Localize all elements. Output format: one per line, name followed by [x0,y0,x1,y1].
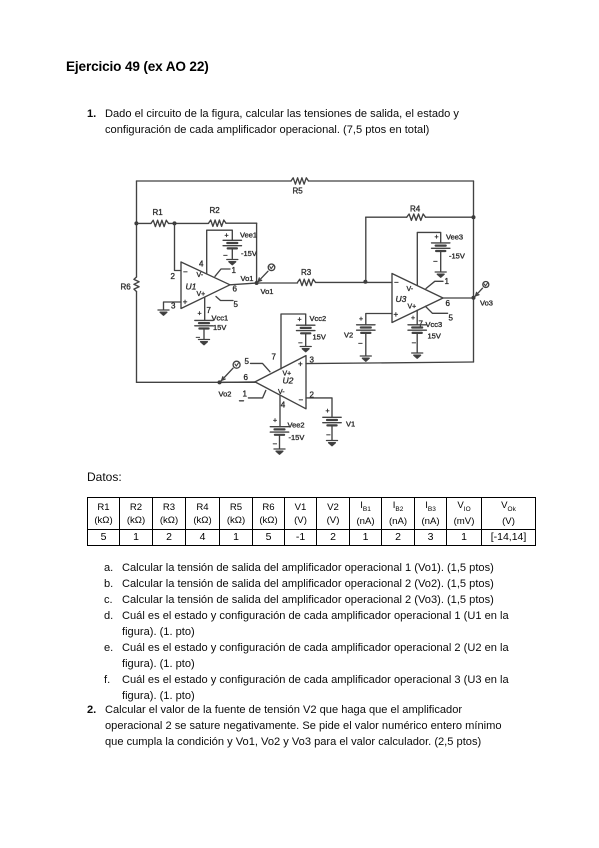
op-amp U1 [181,262,230,309]
svg-text:+: + [411,315,415,322]
svg-text:−: − [412,339,417,348]
svg-text:V+: V+ [197,291,206,298]
svg-text:6: 6 [244,373,249,382]
ground V1 [327,441,338,446]
svg-text:Vo3: Vo3 [480,298,493,307]
svg-text:-15V: -15V [241,249,257,258]
ground Vcc1 [199,340,210,345]
wire U2 pin5 [245,357,271,372]
battery Vee1 [223,231,257,261]
wire R1 row [137,222,257,224]
svg-text:4: 4 [199,260,204,269]
svg-text:R2: R2 [210,206,221,215]
svg-text:2: 2 [310,391,315,400]
svg-text:−: − [223,251,228,260]
battery Vee2 [270,418,304,449]
svg-text:+: + [273,418,277,425]
svg-text:1: 1 [445,277,450,286]
wire U1 pin3 to ground [164,302,182,311]
title [66,59,209,74]
svg-text:3: 3 [310,356,315,365]
svg-text:Vee3: Vee3 [446,233,463,242]
svg-text:+: + [394,310,399,319]
svg-text:R4: R4 [410,205,421,214]
battery Vcc2 [297,314,327,348]
battery V2 [344,316,375,356]
svg-text:6: 6 [233,285,238,294]
svg-text:2: 2 [171,272,176,281]
wire U1 pin7 to Vcc1 [205,297,212,320]
svg-text:−: − [394,278,399,287]
resistor R2 [209,206,227,226]
svg-text:+: + [435,234,439,241]
wire right rail [473,181,475,362]
ground Vee2 [274,449,285,454]
wire U3 output [443,298,474,308]
svg-text:Vee2: Vee2 [288,421,305,430]
wire U1 pin5 [216,297,239,309]
wire U2 pin3 label [310,356,315,365]
node R3/R4 junction [363,280,367,284]
op-amp U2 [255,356,306,409]
wire U2 pin1 [240,389,266,401]
node Vo1 [241,274,274,296]
svg-text:V2: V2 [344,331,353,340]
ground Vcc3 [412,353,423,358]
item 2 [87,702,96,718]
svg-text:V-: V- [407,286,414,293]
battery V1 [323,408,355,440]
svg-text:−: − [326,431,331,440]
item 1 [87,106,96,122]
svg-text:U3: U3 [396,294,407,304]
wire U2 pin4 to Vee2 [280,396,286,427]
op-amp U3 [392,274,443,323]
svg-text:−: − [183,268,188,277]
ground V2 [360,356,371,361]
resistor R4 [407,205,426,221]
svg-text:+: + [298,360,303,369]
svg-text:V1: V1 [346,420,355,429]
Datos: [87,469,122,485]
svg-text:−: − [273,440,278,449]
svg-text:15V: 15V [313,333,326,342]
svg-text:R3: R3 [301,268,312,277]
wire R4 left down to R3 node [365,217,367,282]
battery Vcc1 [195,311,228,343]
node R1/R2 junction [173,221,177,225]
wire R4 row [366,216,474,218]
resistor R5 [291,178,309,196]
svg-text:+: + [326,408,330,415]
wire U3 noninverting to V2 [366,314,392,325]
svg-text:R5: R5 [293,187,304,196]
svg-text:+: + [183,297,188,306]
svg-text:+: + [298,317,302,324]
svg-text:V-: V- [278,389,285,396]
svg-text:Vo1: Vo1 [261,287,274,296]
svg-text:V+: V+ [283,371,292,378]
svg-text:R6: R6 [121,283,132,292]
voltmeter Vo2 [221,361,240,381]
wire U1 inverting input [171,223,182,281]
svg-text:Vo1: Vo1 [241,274,254,283]
svg-text:7: 7 [272,353,277,362]
resistor R6 [121,277,140,292]
ground Vee3 [435,272,446,277]
wire bottom right (right rail to U2 pin3) [306,362,474,364]
resistor R1 [151,208,169,227]
svg-text:3: 3 [171,302,176,311]
ground Vcc2 [300,347,311,352]
node Vo2 [218,380,232,398]
wire U1 output to R3 to U3 [230,282,392,293]
svg-text:R1: R1 [153,208,164,217]
wire U2 pin7 to Vcc2 [272,314,306,369]
data table [87,497,536,546]
svg-text:15V: 15V [428,332,441,341]
svg-text:U1: U1 [186,282,197,292]
ground Vee1 [227,260,238,265]
ground U1 pin3 [158,310,169,315]
battery Vcc3 [408,315,442,353]
svg-text:−: − [433,257,438,266]
list a-f [103,559,105,561]
wire U3 pin7 to Vcc3 [417,310,423,328]
svg-text:Vo2: Vo2 [219,389,232,398]
battery Vee3 [432,233,465,272]
wire U3 pin4 to Vee3 [417,232,440,285]
svg-text:1: 1 [232,266,237,275]
svg-text:Vcc1: Vcc1 [212,314,229,323]
svg-text:−: − [196,333,201,342]
resistor R3 [298,268,316,286]
svg-text:5: 5 [449,313,454,322]
svg-text:+: + [225,233,229,240]
svg-text:Vee1: Vee1 [240,231,257,240]
voltmeter Vo1 [258,264,275,282]
svg-text:5: 5 [245,357,250,366]
wire U3 pin1 [426,277,450,289]
wire left rail [136,181,138,382]
wire R2 down to Vo1 node [256,223,258,283]
svg-text:V-: V- [197,272,204,279]
svg-text:Vcc2: Vcc2 [310,314,327,323]
node R4 right junction [472,215,476,219]
voltmeter Vo3 [475,282,489,297]
svg-text:1: 1 [243,389,248,398]
svg-text:4: 4 [281,401,286,410]
svg-text:6: 6 [446,299,451,308]
svg-text:15V: 15V [213,323,226,332]
node Vo3 [472,296,493,308]
svg-text:-15V: -15V [289,433,305,442]
svg-text:5: 5 [234,300,239,309]
svg-text:+: + [359,316,363,323]
svg-text:Vcc3: Vcc3 [426,320,443,329]
wire U2 output [220,373,256,383]
wire U1 pin4 to Vee1 [199,230,232,273]
wire U3 pin5 [425,306,453,322]
svg-text:−: − [299,396,304,405]
wire top rail [137,180,474,182]
svg-text:+: + [198,311,202,318]
svg-text:V+: V+ [408,304,417,311]
node R1 left junction [134,221,138,225]
wire U1 pin1 [215,266,237,277]
wire U2 pin2 to V1 [306,391,332,418]
svg-text:−: − [358,339,363,348]
svg-text:-15V: -15V [449,252,465,261]
wire bottom left (Vo2 to left rail) [137,381,256,383]
